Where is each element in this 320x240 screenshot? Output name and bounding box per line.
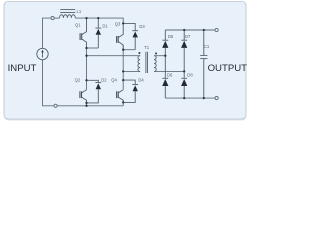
transistor Q1 [80,18,86,48]
node rail D7 [183,29,185,31]
secondary winding [154,56,156,72]
diode D7 [181,30,187,71]
transistor Q3 [117,23,124,49]
component labels [75,9,210,82]
wire bottom rail [57,105,123,107]
node D4 bottom [122,101,124,103]
wire top rail [75,18,123,23]
node Q3 emitter [122,49,124,51]
svg-text:C1: C1 [204,44,210,49]
node secondary bottom [183,70,185,72]
inductor L1 [60,10,76,18]
wire left leg mid [86,42,88,89]
transistor Q4 [117,90,124,106]
diode D5 [162,30,168,56]
wire secondary bottom lead [154,70,184,72]
wire right leg mid (phase B) [122,45,124,90]
node rail C1 top [203,29,205,31]
svg-text:D1: D1 [102,24,108,29]
node rail-Q1 [85,17,87,19]
svg-text:D3: D3 [139,24,145,29]
transistor Q2 [80,90,87,106]
diode D4 [123,80,138,102]
diode D6 [162,56,168,98]
svg-text:D8: D8 [187,72,193,77]
node bottom rail Q2 [85,105,87,107]
node Q1 emitter [85,47,87,49]
wire secondary top lead [154,55,165,57]
transformer T1 [138,52,157,73]
svg-text:Q2: Q2 [75,77,81,82]
svg-text:Q3: Q3 [115,21,121,26]
core [145,52,147,73]
node phase B [122,70,124,72]
wire input bottom [43,60,54,106]
node D2 top [85,79,87,81]
diode D3 [123,23,138,49]
svg-text:D6: D6 [167,72,173,77]
svg-text:INPUT: INPUT [8,63,37,74]
polarity dot secondary [155,53,157,55]
svg-text:L1: L1 [77,9,82,14]
current source I1 [37,48,48,59]
node secondary top [164,55,166,57]
svg-text:OUTPUT: OUTPUT [208,63,248,74]
capacitor C1 [200,30,207,98]
svg-text:D2: D2 [101,77,107,82]
junction dots [85,17,205,107]
wire stub Q3-D3 emitter [123,49,135,51]
node rail-D1 [97,17,99,19]
primary winding [138,56,140,72]
terminal output- [215,97,218,100]
diode D1 [95,18,101,48]
node D2 bottom [85,102,87,104]
svg-text:D4: D4 [138,77,144,82]
svg-text:Q4: Q4 [111,77,117,82]
wire stub Q1-D1 emitter [87,47,99,49]
wire to inductor [54,17,59,19]
wire input top [43,18,51,48]
polarity dot primary [139,52,141,54]
wire output top rail [165,29,215,31]
terminal output+ [215,28,218,31]
svg-text:Q1: Q1 [75,22,81,27]
node rail D8 [183,97,185,99]
node rail-Q3 [122,22,124,24]
wire output bottom rail [165,97,215,99]
svg-text:T1: T1 [144,45,150,50]
node D4 top [122,79,124,81]
diode D8 [181,71,187,98]
wire phase A to transformer primary top [87,55,141,57]
svg-text:D5: D5 [168,34,174,39]
panel background [0,0,250,124]
terminal input+ [51,17,54,20]
node phase A [85,55,87,57]
diode D2 [87,80,102,103]
wire phase B to transformer primary bottom [123,70,140,72]
terminal input- [54,104,57,107]
node rail C1 bottom [203,97,205,99]
svg-text:D7: D7 [185,34,191,39]
